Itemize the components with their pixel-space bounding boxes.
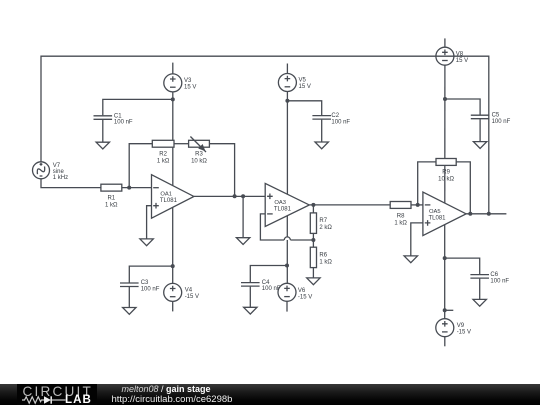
op-amp OA3: [265, 183, 309, 226]
capacitor C5: [471, 115, 490, 119]
wire OA5 output to right rail and stub: [466, 213, 506, 215]
wire V3 node to C1 top: [103, 99, 173, 115]
logo LAB wordmark: [65, 394, 92, 405]
node OA1 output/feedback junction: [233, 194, 237, 198]
wire hop of feedback wire over OA3 V- rail: [284, 237, 290, 240]
svg-text:C2: C2: [331, 113, 339, 119]
wire R9 right lead down to OA5 output: [456, 162, 470, 214]
node C3/V4 junction: [171, 264, 175, 268]
svg-text:V9: V9: [457, 323, 465, 329]
capacitor C1: [94, 116, 113, 120]
svg-text:100 nF: 100 nF: [114, 120, 133, 126]
wire OA1 non-inverting input to ground: [147, 206, 152, 239]
node R9/OA5 output junction: [468, 212, 472, 216]
svg-text:R6: R6: [319, 253, 327, 259]
svg-text:TL081: TL081: [429, 215, 447, 221]
wire V4 bottom stub: [172, 301, 174, 311]
voltage source V8: [436, 47, 454, 65]
wire ground branch at node between OA1 and OA3: [242, 196, 244, 237]
ground at OA5 non-inverting input: [404, 256, 417, 263]
svg-text:R9: R9: [442, 170, 450, 176]
ground below C1: [96, 142, 109, 149]
resistor R7: [310, 213, 316, 234]
wire V3 top stub: [172, 63, 174, 74]
footer title text: [122, 385, 211, 395]
wire OA1 V- pin down to V4: [172, 207, 174, 283]
wire OA3 inverting input to feedback node: [260, 214, 284, 240]
node R8/R9/OA5 junction: [416, 203, 420, 207]
svg-text:OA1: OA1: [160, 192, 172, 198]
ground at OA1 non-inverting input: [140, 239, 153, 246]
resistor R8: [390, 202, 411, 209]
wire V8 node to C5 top: [445, 99, 480, 115]
wire R6 bottom to ground: [312, 268, 314, 278]
svg-text:-15 V: -15 V: [457, 329, 471, 335]
svg-text:1 kΩ: 1 kΩ: [105, 203, 118, 209]
svg-text:1 kΩ: 1 kΩ: [157, 159, 170, 165]
wire C5 bottom to ground: [479, 119, 481, 141]
svg-text:TL081: TL081: [274, 207, 292, 213]
resistor R1: [101, 184, 122, 191]
wire feedback node to R7/R6 junction: [290, 239, 313, 241]
wire stub right of V9 top node: [445, 309, 454, 311]
ground below C3: [123, 308, 136, 315]
wire R8 right to OA5 inverting input: [411, 204, 423, 206]
svg-text:R3: R3: [195, 151, 203, 157]
svg-text:100 nF: 100 nF: [331, 120, 350, 126]
svg-text:C3: C3: [141, 280, 149, 286]
svg-text:100 nF: 100 nF: [141, 287, 160, 293]
svg-text:R2: R2: [159, 151, 167, 157]
svg-text:R7: R7: [319, 218, 327, 224]
voltage source V7 (sine): [33, 162, 50, 179]
svg-text:C5: C5: [492, 113, 500, 119]
svg-text:R8: R8: [397, 214, 405, 220]
svg-text:V6: V6: [298, 288, 306, 294]
voltage source V9: [436, 319, 454, 337]
svg-text:C6: C6: [490, 272, 498, 278]
wire OA3 output to R8 left: [309, 204, 390, 206]
wire between R2 and R3: [174, 143, 189, 145]
node V3/C1 junction: [171, 97, 175, 101]
wire OA5 V- pin down to V9: [444, 225, 446, 319]
ground below C2: [315, 142, 328, 149]
wire C6 bottom to ground: [479, 279, 481, 300]
wire V5 bottom down to OA3 V+ pin: [286, 92, 288, 195]
ground below OA1/OA3 signal node: [236, 238, 249, 245]
capacitor C6: [470, 275, 489, 279]
wire C3 bottom to ground: [128, 287, 130, 308]
resistor R9: [436, 159, 456, 166]
svg-text:1 kHz: 1 kHz: [53, 175, 68, 181]
node V8/C5 junction: [443, 97, 447, 101]
node V5/C2 junction: [285, 99, 289, 103]
wire C4 bottom to ground: [249, 287, 251, 308]
wire C2 bottom to ground: [321, 120, 323, 142]
node C4/V6 junction: [285, 264, 289, 268]
svg-text:15 V: 15 V: [299, 84, 311, 90]
wire V8 bottom down to OA5 V+ pin (passes behind R9): [444, 65, 446, 203]
wire V3 bottom down to OA1 V+ pin (passes behind R2): [172, 92, 174, 186]
logo resistor-diode glyph: [22, 395, 68, 405]
resistor R6: [310, 247, 316, 267]
capacitor C3: [120, 283, 139, 287]
wire OA1 output to OA3 non-inverting input: [194, 195, 265, 197]
capacitor C2: [312, 116, 331, 120]
svg-text:10 kΩ: 10 kΩ: [438, 177, 454, 183]
voltage source V4: [164, 283, 182, 301]
svg-text:V8: V8: [456, 51, 464, 57]
voltage source V3: [164, 74, 182, 92]
wire OA5 non-inverting input to ground: [411, 223, 423, 256]
footer url text: [112, 395, 233, 405]
svg-text:R1: R1: [107, 196, 115, 202]
wire V5 top stub: [286, 64, 288, 74]
svg-text:OA5: OA5: [429, 209, 441, 215]
node C6 branch junction: [443, 256, 447, 260]
resistor R2: [152, 140, 174, 147]
wire R1 right to OA1 inverting input: [122, 187, 152, 189]
svg-text:OA3: OA3: [274, 200, 286, 206]
op-amp OA1: [152, 175, 194, 219]
wire V7 bottom to R1 left: [41, 179, 101, 188]
wire V6 bottom stub: [286, 301, 288, 311]
node R7/R6/feedback junction: [311, 238, 315, 242]
svg-text:1 kΩ: 1 kΩ: [319, 259, 332, 265]
footer bar: [0, 384, 540, 405]
logo CIRCUIT wordmark: [23, 385, 94, 399]
ground below R6: [307, 278, 320, 285]
svg-text:100 nF: 100 nF: [492, 119, 511, 125]
svg-text:C4: C4: [262, 280, 270, 286]
svg-text:10 kΩ: 10 kΩ: [191, 159, 207, 165]
svg-text:TL081: TL081: [160, 198, 178, 204]
svg-text:1 kΩ: 1 kΩ: [394, 220, 407, 226]
svg-text:100 nF: 100 nF: [262, 286, 281, 292]
svg-text:C1: C1: [114, 113, 122, 119]
wire V8 top stub: [444, 38, 446, 47]
wire feedback branch up from R1 node to R2 left: [129, 144, 152, 188]
wire V5 node to C2 top: [287, 101, 321, 115]
svg-text:100 nF: 100 nF: [490, 279, 509, 285]
resistor R3 (variable): [189, 137, 210, 153]
svg-text:2 kΩ: 2 kΩ: [319, 225, 332, 231]
ground below C4: [244, 307, 257, 314]
voltage source V5: [278, 74, 296, 92]
wire R7 bottom lead: [312, 233, 314, 240]
ground below C5: [473, 142, 486, 149]
wire R9 feedback left branch: [418, 162, 436, 205]
node R1/feedback junction: [127, 186, 131, 190]
wire V4 node to C3 top: [129, 266, 172, 282]
wire V9 bottom stub: [444, 337, 446, 347]
wire R3 right down to OA1 output node: [209, 144, 234, 197]
node V9 top junction: [443, 308, 447, 312]
svg-text:15 V: 15 V: [184, 85, 196, 91]
voltage source V6: [278, 283, 296, 301]
wire R7 top lead: [312, 205, 314, 213]
svg-text:15 V: 15 V: [456, 58, 468, 64]
svg-text:-15 V: -15 V: [298, 294, 312, 300]
op-amp OA5: [423, 192, 466, 236]
svg-text:V3: V3: [184, 78, 192, 84]
wire top loop rail from V7 top, across top, down right side to OA5 output: [41, 56, 489, 214]
capacitor C4: [241, 283, 260, 287]
svg-text:V5: V5: [299, 78, 307, 84]
node OA3 output/R7 junction: [311, 203, 315, 207]
wire C1 bottom to ground: [102, 120, 104, 142]
wire V6 node to C4 top: [250, 266, 287, 283]
logo block background: [17, 384, 97, 405]
svg-text:V4: V4: [185, 288, 193, 294]
wire V9 node to C6 top: [445, 258, 480, 274]
ground below C6: [473, 299, 486, 306]
node output/right rail junction: [487, 212, 491, 216]
svg-text:-15 V: -15 V: [185, 294, 199, 300]
wire OA3 V- pin down to V6 (continuous under hop): [286, 216, 288, 284]
wire R6 top lead: [312, 240, 314, 247]
node signal/ground junction: [241, 194, 245, 198]
svg-text:V7: V7: [53, 163, 61, 169]
